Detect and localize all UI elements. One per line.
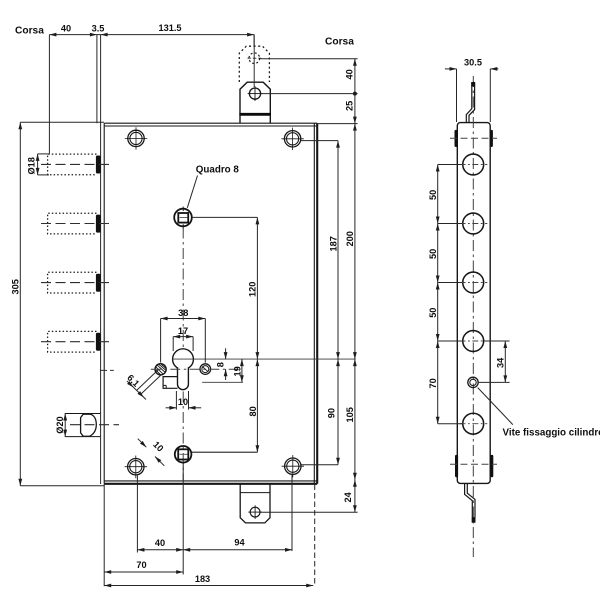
svg-text:30.5: 30.5 xyxy=(464,58,482,68)
bottom tab hole xyxy=(248,505,262,519)
faceplate flange centerline top xyxy=(450,137,497,139)
dimension 6.1 diagonal xyxy=(127,370,162,400)
svg-text:90: 90 xyxy=(327,408,337,418)
top sliding tab (retracted, solid) xyxy=(240,82,270,123)
top dimension line 40 / 3.5 / 131.5 xyxy=(49,35,254,154)
dimension 70 bottom xyxy=(104,571,183,573)
bottom extension lines xyxy=(104,463,315,586)
svg-text:200: 200 xyxy=(345,231,355,246)
top tab hole (solid circle) xyxy=(248,86,263,101)
top spring wire xyxy=(466,82,474,122)
svg-text:34: 34 xyxy=(496,357,506,368)
faceplate side flange top-right xyxy=(490,130,493,147)
cylinder screw left (hatched) xyxy=(155,364,166,375)
dimension 8 xyxy=(225,348,227,380)
svg-text:3.5: 3.5 xyxy=(92,24,105,34)
svg-text:183: 183 xyxy=(195,574,210,584)
svg-text:50: 50 xyxy=(428,308,438,318)
faceplate flange centerline bottom xyxy=(450,463,497,465)
deadbolt 3 (dotted) xyxy=(48,272,97,293)
corner screw bottom-right xyxy=(282,455,304,477)
dimension 38 xyxy=(161,319,206,363)
svg-text:Ø20: Ø20 xyxy=(55,416,65,433)
svg-text:25: 25 xyxy=(345,101,355,111)
svg-text:Corsa: Corsa xyxy=(325,37,354,48)
svg-text:94: 94 xyxy=(234,538,245,548)
deadbolt 4 black section xyxy=(96,333,101,351)
deadbolt 1 centerline xyxy=(41,163,114,165)
faceplate hole 3 xyxy=(460,272,488,293)
quadro 8 spindle hole xyxy=(174,207,192,229)
svg-text:38: 38 xyxy=(178,308,188,318)
faceplate hole 4 xyxy=(460,331,488,352)
left dimension 305 xyxy=(20,122,104,485)
corner screw top-left xyxy=(125,127,147,149)
cylinder cam bar xyxy=(163,377,177,389)
svg-text:187: 187 xyxy=(329,236,339,251)
faceplate side flange top-left xyxy=(455,130,458,147)
deadbolt 4 (dotted) xyxy=(48,331,97,352)
deadbolt 2 centerline xyxy=(41,223,114,225)
top tab slot bar (black) xyxy=(239,113,270,116)
dimension 34 xyxy=(478,341,509,382)
svg-text:Ø18: Ø18 xyxy=(27,157,37,174)
corner screw bottom-left xyxy=(125,456,147,479)
svg-text:24: 24 xyxy=(343,491,353,502)
dimension 10 diagonal (fixing hole) xyxy=(138,439,165,466)
dimension Ø18 (bolt 1) xyxy=(38,154,49,175)
svg-text:40: 40 xyxy=(61,24,71,34)
corner screw top-right xyxy=(281,128,303,150)
svg-text:50: 50 xyxy=(428,249,438,259)
latch centerline xyxy=(70,424,119,426)
faceplate vertical centerline xyxy=(472,76,474,557)
fixing screw axis stub at faceplate xyxy=(100,369,114,371)
deadbolt 4 centerline xyxy=(41,341,114,343)
svg-text:19: 19 xyxy=(233,366,243,376)
faceplate side flange bottom-right xyxy=(490,455,493,477)
latch bolt xyxy=(65,414,101,437)
bottom spring wire xyxy=(465,483,475,522)
svg-text:305: 305 xyxy=(11,279,21,294)
dimension 19 xyxy=(241,359,243,382)
deadbolt 2 black section xyxy=(96,215,101,233)
deadbolt 3 black section xyxy=(96,274,101,292)
cylinder fixing screw hole xyxy=(468,377,478,387)
svg-text:Quadro 8: Quadro 8 xyxy=(196,165,240,176)
euro cylinder profile xyxy=(173,349,194,390)
faceplate left dim chain 50/50/50/70 xyxy=(438,165,462,424)
svg-text:50: 50 xyxy=(428,190,438,200)
cylinder screw right (hatched) xyxy=(200,364,211,375)
svg-text:120: 120 xyxy=(248,282,258,297)
dimension 10 (cylinder stem) xyxy=(166,391,202,410)
dimension 183 bottom xyxy=(104,585,313,587)
connector line square hole to 80 dim xyxy=(192,451,258,453)
dimension 120 / 80 vertical xyxy=(192,217,258,452)
main vertical centerline xyxy=(182,228,184,481)
svg-text:70: 70 xyxy=(136,560,146,570)
svg-text:131.5: 131.5 xyxy=(159,23,182,33)
cylinder screws centerline xyxy=(151,368,243,370)
right dim chain 40/25/200/105/24 xyxy=(260,59,358,512)
top tab hole (extended, dashed circle) xyxy=(248,53,262,64)
svg-text:10: 10 xyxy=(178,397,188,407)
faceplate edge (side view, 3.5 thick) xyxy=(97,35,101,484)
dimension 40 bottom xyxy=(137,549,183,551)
svg-text:17: 17 xyxy=(178,326,188,336)
deadbolt 1 black section xyxy=(96,156,101,174)
svg-text:8: 8 xyxy=(215,362,225,367)
svg-text:Vite fissaggio cilindro: Vite fissaggio cilindro xyxy=(503,428,600,439)
dimension 94 bottom xyxy=(183,549,292,551)
dim chain 187/90 xyxy=(301,141,338,465)
deadbolt 1 (dotted) xyxy=(48,154,97,175)
dimension Ø20 (latch) xyxy=(64,414,66,437)
fixing screw line (19 ref) xyxy=(202,381,243,383)
faceplate hole 5 xyxy=(460,413,488,434)
top sliding tab (extended, dashed) xyxy=(239,46,269,82)
lock body outline xyxy=(104,123,317,484)
dimension 17 xyxy=(173,337,193,351)
svg-text:40: 40 xyxy=(155,538,165,548)
svg-text:Corsa: Corsa xyxy=(15,26,44,37)
faceplate side flange bottom-left xyxy=(455,455,458,477)
svg-text:70: 70 xyxy=(428,378,438,388)
bottom square spindle hole xyxy=(175,446,192,463)
deadbolt 2 (dotted) xyxy=(48,213,97,234)
svg-text:40: 40 xyxy=(345,69,355,79)
svg-text:80: 80 xyxy=(248,406,258,416)
svg-text:6,1: 6,1 xyxy=(125,373,141,389)
svg-text:105: 105 xyxy=(345,407,355,422)
svg-text:10: 10 xyxy=(151,439,165,453)
top tab centerline xyxy=(253,35,255,87)
bottom fixed tab xyxy=(240,484,270,523)
leader vite fissaggio cilindro xyxy=(478,388,513,425)
faceplate hole 1 xyxy=(460,154,488,175)
cylinder axis line xyxy=(172,358,356,360)
deadbolt 3 centerline xyxy=(41,282,114,284)
faceplate body xyxy=(457,123,490,484)
dimension 30.5 xyxy=(445,69,498,122)
faceplate hole 2 xyxy=(460,213,488,234)
